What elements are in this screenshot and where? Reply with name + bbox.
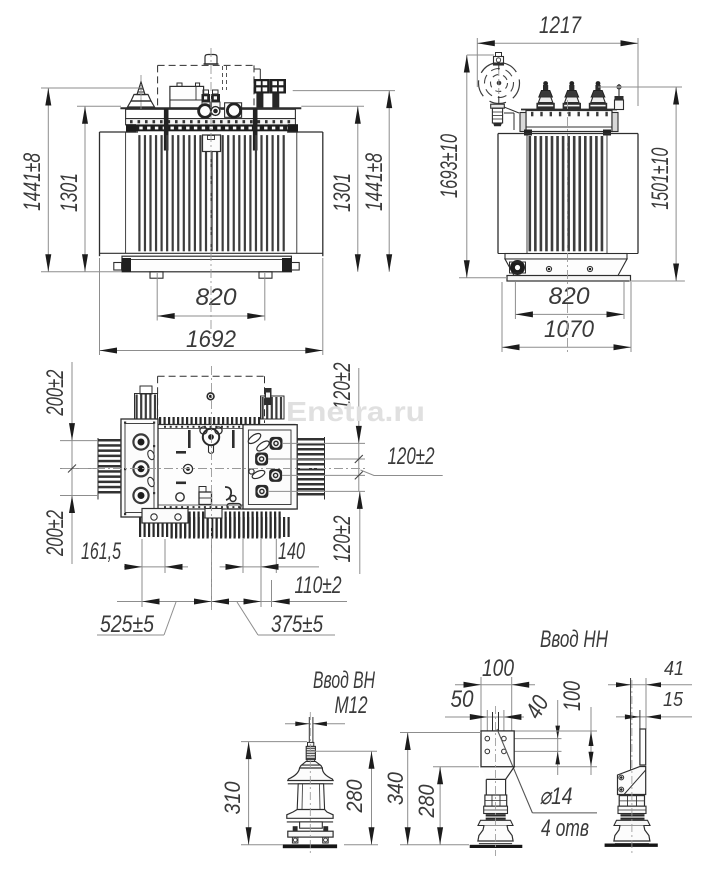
bolt on plan top area [207,393,214,400]
svg-text:1301: 1301 [56,173,83,212]
lid box side view [520,110,618,136]
ring lower left [176,493,184,501]
dim 200±2 bottom-left [42,441,98,564]
dim 161,5 [81,538,188,570]
dim 280 (HV) [314,751,378,845]
svg-text:310: 310 [220,781,245,815]
svg-text:1301: 1301 [329,173,356,212]
base / skid front [114,256,299,278]
centerline HV bushing detail [309,712,311,856]
center lifting plate notch [203,135,221,152]
dim 110±2 [261,572,347,602]
lid band with bolts [126,119,296,125]
LV bushing box (left) [121,419,158,517]
svg-text:15: 15 [663,689,684,711]
svg-text:41: 41 [664,658,684,680]
svg-text:1501±10: 1501±10 [647,147,674,209]
dim 1070 side bottom [502,282,631,352]
svg-text:1692: 1692 [186,326,236,353]
svg-text:200±2: 200±2 [42,370,69,417]
small oval fittings [147,449,156,460]
small LV bushing (side view right) [615,84,624,110]
dim 1501±10 right [598,87,685,281]
washers [486,814,506,816]
svg-text:50: 50 [451,686,475,713]
svg-text:140: 140 [278,538,305,565]
roller [511,261,525,275]
two small middle bushings on lid [202,90,221,108]
stem wires [308,717,310,744]
svg-text:100: 100 [482,655,515,682]
hex nut [485,795,507,806]
junction box [199,492,212,505]
tank outline front [100,132,323,256]
stem wires [492,712,494,731]
dim 120±2 middle leader [355,443,443,491]
dim 1693±10 left [436,55,507,278]
three HV bushings on lid (side view) [536,81,607,109]
second skirt [287,810,333,819]
svg-text:375±5: 375±5 [271,611,324,638]
svg-text:4 отв: 4 отв [541,815,589,842]
dim M12 thread [285,723,309,725]
washers [621,814,645,816]
dim 1301 right [301,106,364,271]
dim 820 side bottom [515,282,624,319]
threaded stud [308,742,314,746]
svg-text:М12: М12 [335,692,368,719]
svg-text:340: 340 [383,771,408,805]
svg-text:280: 280 [414,784,439,819]
bottom wall fins comb (plan) [139,512,290,539]
left side fins (plan) [98,438,121,500]
bolt circle mid [183,464,192,473]
centerline LV bushing detail side [631,680,633,856]
corrugated fins side [529,136,604,251]
svg-text:1693±10: 1693±10 [436,134,463,198]
HV bushing box (right, plan) [243,425,297,509]
LV bushing detail "Ввод НН" front [445,626,608,848]
svg-text:Enetra.ru: Enetra.ru [286,396,425,427]
drain hook [225,487,231,500]
skirt [614,820,650,825]
svg-text:40: 40 [520,691,555,724]
small bar fittings [176,451,186,454]
top wall fins comb [159,417,260,425]
svg-text:120±2: 120±2 [329,516,356,563]
base / skid side view [505,254,631,282]
breather cartridge [491,104,519,130]
svg-text:280: 280 [342,779,367,814]
dim 310 [220,742,307,845]
svg-text:820: 820 [549,283,591,310]
svg-text:1441±8: 1441±8 [361,153,388,211]
centerline HV bushing left (front view) [140,75,142,112]
base line [470,845,523,848]
top cap on lid center [204,55,219,65]
dim 525±5 [97,599,290,639]
collar [302,761,321,765]
bottom plate with two holes [142,509,188,524]
extension lines [630,678,632,770]
LV bushing detail side view [605,658,692,847]
expansion/drive box on lid [170,83,204,108]
centerline side view [567,100,569,352]
collar [618,806,646,813]
lower column [300,822,323,828]
thermometer dial (dashed circles) [479,63,520,104]
bell [478,826,513,842]
small bottom box center [205,509,222,519]
hanging pins [188,430,191,448]
base line [605,844,658,847]
dashed rectangle (conservator footprint) [158,376,265,423]
HV bushing detail "Ввод ВН" [283,667,376,848]
corrugated fins front [138,135,285,251]
dim 1441±8 right [293,91,395,272]
leader diagonal (4 holes) [497,729,532,813]
plan main plate [121,425,295,510]
hinge axis dashed lines on lid [223,66,227,90]
dim 1692 front bottom [100,258,323,355]
dim 1441±8 left [19,88,142,272]
tank outline side [498,134,638,254]
top-left corrugated block [135,386,158,419]
svg-text:Ввод ВН: Ввод ВН [313,667,375,694]
bell [614,826,650,842]
HV bushing (left, side profile) on lid [128,75,155,109]
hex nut [619,796,644,807]
dim 140 [220,538,319,570]
svg-text:100: 100 [559,681,586,711]
HV bushings front (pair of finned blocks) [254,79,286,108]
lid valve circle right [225,103,242,118]
corner brackets on lid band [126,124,298,132]
clamp bracket [618,767,646,795]
lid rail [120,108,301,118]
centerline LV bushing detail front [495,706,497,856]
dim 1301 left [56,106,121,271]
top-right corrugated block [261,388,285,419]
svg-text:820: 820 [196,284,238,311]
flag bar [640,729,646,765]
svg-text:200±2: 200±2 [42,510,69,557]
centerline front view [210,48,212,338]
right side fins (plan) [298,437,325,500]
dim 120±2 bottom-right [329,491,363,574]
frame band under lid [128,125,295,131]
dim 1217 top [477,12,638,106]
dim 200±2 top-left [42,362,98,441]
neck [481,767,514,780]
dim 120±2 top-right [268,363,365,492]
breather cap on top [494,53,504,105]
svg-text:110±2: 110±2 [295,572,342,599]
svg-text:1441±8: 1441±8 [19,152,46,210]
base line [283,844,337,848]
flange bolt studs [293,826,298,831]
plan centerline horizontal [62,468,366,470]
svg-text:1070: 1070 [544,316,595,343]
svg-text:120±2: 120±2 [388,443,435,470]
lid flange circle left [199,105,212,118]
collar [484,806,508,813]
dashed outline (conservator envelope) on lid [158,65,261,107]
dim 820 front bottom [157,273,265,321]
lifting lug posts [164,109,258,151]
dim 375±5 leader [237,602,335,638]
terminal plate [481,731,514,767]
flange bolts below [292,837,298,843]
plan centerline vertical [211,366,213,610]
center valve knob [203,429,219,445]
svg-text:⌀14: ⌀14 [540,783,573,810]
dim 280 (LV) [414,767,479,845]
middle column [297,784,324,810]
plan center components [176,427,241,509]
skirt [478,820,513,825]
svg-text:1217: 1217 [539,12,582,39]
mounting flange [288,831,333,837]
svg-text:Ввод НН: Ввод НН [540,626,608,653]
top skirt bell [300,765,323,768]
dim 340 [383,733,481,845]
svg-text:161,5: 161,5 [81,538,121,565]
plan bottom extension lines [142,539,276,607]
small bushing circle [211,107,220,116]
svg-text:525±5: 525±5 [100,611,155,638]
